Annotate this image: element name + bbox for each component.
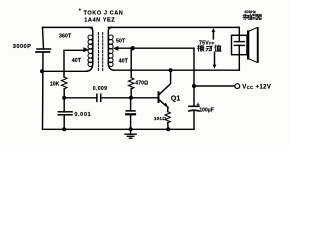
wire right winding bottom lead bbox=[108, 63, 114, 70]
char neng bbox=[250, 14, 255, 19]
transducer horn cone bbox=[249, 28, 257, 31]
capacitor C 100uF plates bbox=[189, 105, 199, 107]
svg-text:3000P: 3000P bbox=[13, 44, 32, 50]
annotation arrow down bbox=[214, 52, 216, 65]
wire left rail upper bbox=[43, 27, 44, 49]
wire tap corner vertical to Vcc bbox=[193, 48, 195, 86]
transducer box bbox=[232, 35, 248, 54]
resistor R emitter bbox=[165, 112, 170, 123]
wire left tap horizontal bbox=[64, 50, 84, 77]
label vibration value (hand-drawn CJK) bbox=[197, 45, 221, 51]
transistor Q1 collector lead bbox=[159, 70, 171, 95]
svg-text:470Ω: 470Ω bbox=[135, 80, 148, 86]
char huan bbox=[243, 14, 249, 19]
wire tank bottom horizontal bbox=[42, 70, 87, 72]
node base-mid junction bbox=[129, 96, 133, 100]
char dong bbox=[206, 46, 212, 51]
wire transducer bottom lead bbox=[238, 55, 240, 70]
transducer horn driver bar bbox=[247, 30, 249, 59]
Q1 emitter arrowhead bbox=[164, 103, 169, 108]
wire left winding top lead bbox=[89, 27, 93, 64]
capacitor C 100uF upper lead bbox=[193, 86, 195, 106]
svg-text:0.009: 0.009 bbox=[93, 86, 107, 92]
wire mid-cap upper bbox=[130, 98, 132, 111]
node emitter ground junction bbox=[166, 127, 170, 131]
capacitor C 0.001 bbox=[58, 111, 72, 113]
wire emitter to resistor bbox=[167, 107, 169, 111]
node base-left junction bbox=[62, 96, 66, 100]
capacitor C mid (base bypass) bbox=[126, 110, 135, 112]
annotation arrow up bbox=[212, 31, 214, 39]
node tap / 470 junction bbox=[130, 46, 134, 50]
node Vcc junction bbox=[192, 84, 196, 88]
terminal Vcc open circle bbox=[235, 84, 240, 89]
svg-text:100μF: 100μF bbox=[199, 108, 213, 114]
transformer core dashed lines bbox=[97, 33, 99, 71]
wire 0.001 branch upper bbox=[63, 98, 65, 112]
char zhi bbox=[215, 45, 221, 51]
svg-text:Q1: Q1 bbox=[171, 95, 180, 102]
svg-text:0.001: 0.001 bbox=[74, 112, 91, 118]
svg-text:1A4N YEZ: 1A4N YEZ bbox=[84, 18, 115, 24]
label transducer (hand-drawn CJK) bbox=[243, 14, 262, 19]
wire 10K to base node bbox=[63, 89, 65, 98]
capacitor C 0.009 bbox=[96, 94, 98, 101]
transistor Q1 base bar bbox=[158, 92, 160, 102]
wire mid-cap lower bbox=[130, 114, 132, 129]
node ground-stub junction bbox=[129, 127, 133, 131]
inductor T1 left winding 360T/40T bbox=[88, 35, 93, 40]
resistor R 10K bbox=[61, 77, 66, 89]
svg-text:10K: 10K bbox=[50, 82, 60, 88]
svg-text:360T: 360T bbox=[59, 34, 72, 40]
wire left rail lower bbox=[42, 52, 45, 129]
svg-text:40T: 40T bbox=[119, 59, 129, 65]
left tap arrowhead bbox=[83, 47, 89, 52]
svg-text:50T: 50T bbox=[116, 39, 126, 45]
wire collector row (wire A) bbox=[114, 69, 239, 71]
wire bottom rail bbox=[43, 128, 195, 130]
ground symbol bbox=[130, 129, 132, 134]
wire top-right horizontal bbox=[108, 26, 239, 28]
wire left winding bottom lead bbox=[87, 63, 93, 71]
wire right winding top lead bbox=[108, 27, 112, 64]
wire 470 lower bbox=[130, 89, 132, 98]
wire 0.001 branch lower bbox=[63, 115, 65, 130]
wire 470 upper bbox=[130, 48, 132, 77]
node collector junction bbox=[169, 68, 173, 72]
transistor Q1 emitter lead bbox=[159, 100, 168, 108]
char qi bbox=[256, 14, 262, 19]
resistor R 470 bbox=[129, 78, 134, 89]
right tap arrowhead bbox=[113, 46, 119, 51]
svg-text:VCC +12V: VCC +12V bbox=[242, 83, 271, 90]
node 0.001 ground junction bbox=[62, 127, 66, 131]
svg-text:TOKO J CAN: TOKO J CAN bbox=[84, 10, 124, 16]
svg-text:101Ω: 101Ω bbox=[154, 116, 166, 122]
svg-text:40T: 40T bbox=[72, 58, 82, 64]
transducer crystal plates bbox=[238, 35, 240, 41]
char zhen bbox=[197, 45, 203, 51]
wire right tap horizontal bbox=[118, 47, 194, 49]
inductor T1 right winding 50T/40T bbox=[109, 35, 114, 40]
capacitor C 100uF lower lead bbox=[193, 111, 195, 129]
wire transducer top lead bbox=[238, 27, 240, 35]
wire top-left horizontal bbox=[43, 26, 93, 28]
wire emitter resistor to rail bbox=[167, 123, 170, 130]
wire base row right bbox=[101, 97, 158, 99]
svg-text:40kHz: 40kHz bbox=[244, 9, 256, 14]
node tank bottom junction bbox=[40, 69, 44, 73]
wire base row left bbox=[64, 97, 97, 99]
wire Vcc horizontal bbox=[194, 85, 235, 87]
capacitor C 3000P bbox=[37, 48, 51, 50]
